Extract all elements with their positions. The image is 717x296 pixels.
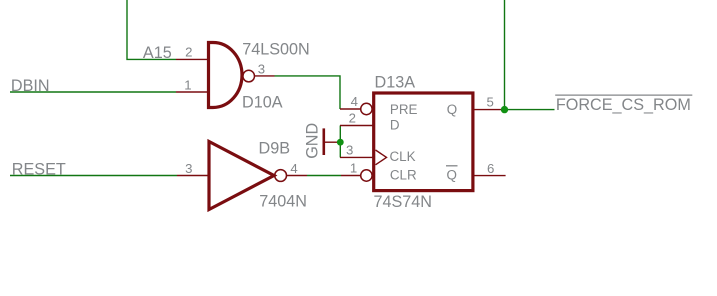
inverter output bubble — [275, 170, 287, 182]
wire Q output vertical — [504, 0, 506, 110]
junction gnd — [337, 139, 344, 146]
svg-text:Q: Q — [447, 167, 457, 182]
svg-text:3: 3 — [185, 161, 192, 176]
svg-text:CLR: CLR — [390, 167, 417, 182]
wire gnd net vertical — [339, 126, 341, 158]
pin 3 stub of U1 — [255, 75, 275, 77]
nand gate D10A body — [209, 43, 243, 108]
wire DBIN — [10, 91, 176, 93]
svg-text:74LS00N: 74LS00N — [242, 40, 310, 58]
svg-text:D10A: D10A — [242, 94, 283, 112]
svg-text:RESET: RESET — [12, 161, 66, 179]
pin 1 stub of U1 — [176, 91, 208, 93]
svg-text:1: 1 — [184, 77, 191, 92]
pin 6 Qbar stub — [473, 175, 506, 177]
svg-text:A15: A15 — [143, 44, 172, 62]
wire Q output horizontal — [505, 109, 555, 111]
junction Q — [501, 106, 508, 113]
wire inverter out to CLR — [307, 175, 341, 177]
pin 3 CLK stub — [340, 156, 373, 158]
ground pin stub — [325, 141, 340, 143]
svg-text:DBIN: DBIN — [11, 77, 50, 95]
svg-text:D9B: D9B — [259, 139, 291, 157]
svg-text:D13A: D13A — [375, 73, 416, 91]
svg-text:GND: GND — [304, 123, 322, 159]
svg-text:2: 2 — [185, 45, 192, 60]
svg-text:7404N: 7404N — [259, 193, 307, 211]
svg-text:5: 5 — [487, 95, 494, 110]
svg-text:4: 4 — [290, 161, 297, 176]
pin 5 Q stub — [473, 109, 505, 111]
pin 2 D stub — [340, 125, 373, 127]
svg-text:D: D — [390, 118, 400, 133]
nand gate output bubble — [243, 70, 255, 82]
inverter D9B body — [209, 142, 274, 210]
pin 2 stub of U1 — [176, 58, 208, 60]
svg-text:2: 2 — [349, 111, 356, 126]
svg-text:6: 6 — [487, 161, 494, 176]
pin 3 stub of inverter — [177, 175, 209, 177]
pin 4 stub of inverter — [287, 175, 308, 177]
svg-text:CLK: CLK — [390, 149, 416, 164]
svg-text:Q: Q — [447, 102, 457, 117]
flipflop D13A body — [374, 93, 473, 191]
pin 4 PRE stub — [340, 108, 361, 110]
svg-text:74S74N: 74S74N — [374, 193, 433, 211]
svg-text:PRE: PRE — [390, 102, 418, 117]
svg-text:1: 1 — [350, 161, 357, 176]
svg-text:FORCE_CS_ROM: FORCE_CS_ROM — [556, 96, 691, 114]
wire RESET — [10, 175, 177, 177]
svg-text:3: 3 — [258, 61, 265, 76]
svg-text:3: 3 — [346, 143, 353, 158]
clk triangle — [376, 150, 387, 165]
pin 1 CLR stub — [341, 175, 361, 177]
wire nand output to PRE — [275, 76, 341, 109]
wire A15 vertical — [127, 0, 176, 59]
svg-text:4: 4 — [351, 94, 358, 109]
